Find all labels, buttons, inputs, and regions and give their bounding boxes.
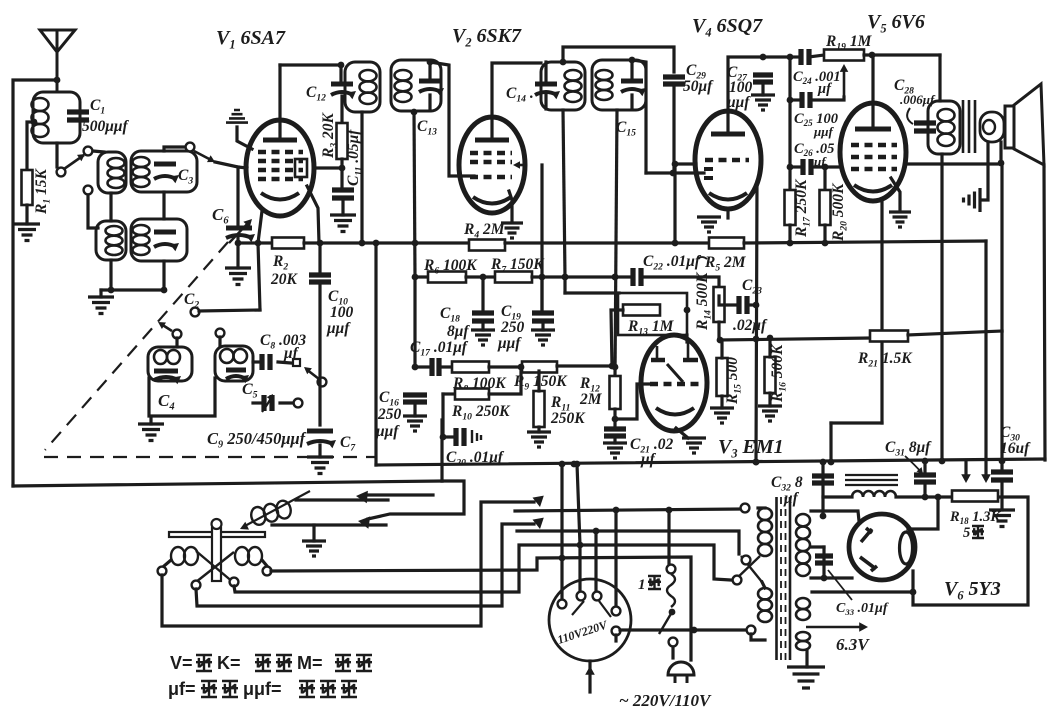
cjk glyph: [299, 681, 315, 697]
capacitor C10: [309, 275, 331, 282]
capacitor C9: [264, 395, 272, 411]
junction: [939, 458, 946, 465]
wire to C30: [1000, 331, 1003, 471]
wire C23 to rail: [747, 303, 756, 306]
ground below R11: [527, 432, 551, 447]
plug contact: [558, 600, 567, 609]
wire HV center tap: [811, 545, 824, 548]
grid row V5: [851, 155, 897, 160]
wire to C17: [415, 365, 429, 368]
osc coil terminal: [173, 330, 182, 339]
wire V1 plate to C12: [280, 63, 341, 66]
wire mains line A: [515, 509, 741, 511]
switch arm: [161, 324, 172, 331]
wire rail to R17: [788, 167, 791, 190]
wire C22 to R14: [641, 277, 719, 287]
wire V2 cathode to ground: [509, 191, 512, 222]
wire IF1 secondary return: [414, 111, 415, 277]
wire back bias line: [719, 338, 870, 340]
junction: [869, 52, 876, 59]
ground below R15: [710, 408, 734, 423]
wire contact to lower coil: [88, 195, 98, 228]
svg-text:M=: M=: [297, 653, 323, 673]
transformer terminal: [733, 576, 742, 585]
wire bus to C22: [532, 275, 631, 278]
grid row V2: [470, 151, 512, 156]
wire R10 to C20: [441, 394, 444, 437]
power transformer primary upper: [758, 508, 772, 520]
svg-text:μμf=: μμf=: [243, 679, 282, 699]
transformer terminal: [747, 626, 756, 635]
junction: [753, 459, 760, 466]
variable capacitor C6: [226, 226, 252, 231]
wire 6.3V winding to ground: [805, 650, 808, 667]
wire V4 plate to coupling: [728, 57, 763, 132]
antenna coil L1 loops: [32, 98, 49, 111]
grid row V5: [851, 167, 897, 172]
wire HV to V6 plate 2: [811, 576, 852, 579]
svg-text:20K: 20K: [270, 271, 299, 288]
capacitor C30: [991, 472, 1013, 480]
osc arm arrowhead: [158, 322, 166, 329]
junction: [753, 302, 760, 309]
wire bus tap to R18: [964, 462, 967, 478]
capacitor C26: [803, 159, 811, 175]
junction: [613, 507, 620, 514]
tube V6 5Y3: [849, 514, 915, 580]
grid row V4: [705, 158, 749, 163]
junction: [820, 459, 827, 466]
wire AVC bus: [505, 241, 709, 244]
junction: [787, 54, 794, 61]
svg-text:μf: μf: [640, 451, 657, 468]
wire R19 to output transformer: [864, 53, 940, 56]
C33 leader: [828, 570, 852, 600]
wire C25 to R19 wiper: [810, 97, 844, 100]
grid box V1: [295, 159, 307, 177]
ground below C7: [307, 457, 333, 474]
wire speaker to grid return: [999, 142, 1002, 163]
wire C33 chain: [822, 547, 825, 578]
ground below R2 wire: [225, 268, 251, 285]
grid row V1: [258, 150, 303, 155]
tube V4 6SQ7: [695, 111, 761, 209]
svg-text:V4 6SQ7: V4 6SQ7: [692, 15, 763, 39]
svg-text:R4 2M: R4 2M: [463, 221, 506, 240]
wire choke to R18: [896, 495, 952, 498]
junction: [612, 416, 619, 423]
wire C13 to box: [428, 95, 431, 110]
cjk glyph: [335, 655, 351, 671]
wire main bottom bus: [376, 459, 1045, 465]
wire 5V winding to V6: [812, 590, 913, 593]
wire rail to C26: [788, 100, 791, 167]
wire coil to ground bus: [162, 261, 165, 290]
junction: [577, 542, 584, 549]
wire C24 to R19: [809, 55, 824, 57]
junction: [691, 627, 698, 634]
wire V1 bottom to R2 node: [258, 211, 262, 243]
wire to R13 loop: [565, 291, 619, 294]
wire R12 to C21: [613, 409, 616, 427]
wire R1 to ground: [25, 205, 28, 224]
junction: [562, 274, 569, 281]
power transformer HV secondary: [796, 514, 810, 526]
V6 plates: [860, 528, 877, 571]
junction: [559, 555, 566, 562]
junction: [235, 240, 242, 247]
tube V5 6V6: [840, 103, 906, 201]
svg-text:R3 20K: R3 20K: [320, 111, 339, 159]
wire to C24: [763, 55, 790, 58]
svg-text:R16 500K: R16 500K: [769, 343, 788, 403]
6.3V arrowhead: [859, 622, 868, 632]
wire to plug pin: [594, 531, 597, 591]
ground below R16: [758, 406, 782, 421]
ground below C19: [531, 330, 555, 345]
wire coil to terminal: [262, 560, 267, 566]
ground below osc coil A: [138, 424, 164, 441]
label leader squiggle: [697, 257, 707, 259]
AVC arrow into V2: [516, 164, 526, 167]
ground at band switch: [302, 541, 326, 556]
plug pin: [612, 627, 621, 636]
svg-text:V2 6SK7: V2 6SK7: [452, 25, 522, 49]
wire to ground stub: [236, 243, 239, 268]
svg-text:16uf: 16uf: [1000, 440, 1031, 457]
junction: [560, 59, 567, 66]
resistor R13: [623, 305, 660, 316]
junction: [339, 165, 346, 172]
svg-text:R6 100K: R6 100K: [423, 257, 478, 276]
gang terminal: [158, 567, 167, 576]
capacitor C1: [67, 112, 89, 120]
grid row V1: [258, 177, 303, 182]
variable capacitor C15: [621, 79, 643, 84]
junction: [411, 109, 418, 116]
wire rail to R13 wire: [563, 277, 566, 293]
wire to C25: [790, 98, 800, 101]
ground below RF coils: [88, 297, 114, 314]
capacitor C16: [403, 395, 427, 402]
wire tickler to switch: [296, 498, 388, 501]
transformer terminal: [741, 504, 750, 513]
svg-text:C17 .01μf: C17 .01μf: [410, 339, 469, 358]
wire IF2 top to C29: [563, 47, 674, 72]
junction: [684, 307, 691, 314]
svg-text:100: 100: [330, 304, 354, 321]
wire to C14: [544, 62, 547, 82]
svg-text:V=: V=: [170, 653, 193, 673]
wire diode line: [646, 171, 704, 174]
grid row V1: [258, 159, 303, 164]
power transformer 6.3V winding: [796, 632, 810, 641]
oscillator coil box A: [148, 347, 192, 381]
dashed boundary bottom: [44, 456, 376, 458]
plug slots: [572, 601, 611, 617]
svg-text:R15 500: R15 500: [724, 357, 743, 405]
output transformer core: [963, 100, 975, 153]
C9 arrowhead: [267, 394, 273, 401]
wire V5 grid return: [906, 164, 1002, 331]
wire B+ AVC bus: [376, 241, 469, 244]
wire to R20: [823, 167, 826, 190]
cathode V1: [261, 193, 299, 200]
junction: [54, 77, 61, 84]
grid row V2: [470, 175, 512, 180]
wire C9 to contact: [280, 401, 293, 404]
output transformer primary box: [928, 101, 960, 154]
grid row EM1: [650, 382, 700, 387]
wire R14 to C23: [719, 296, 735, 305]
wire C11 to ground: [341, 201, 344, 215]
capacitor C17: [432, 358, 439, 376]
wire R9 to R11: [537, 371, 540, 391]
plate V4: [711, 132, 745, 137]
svg-text:R14 500K: R14 500K: [694, 271, 713, 331]
junction: [427, 59, 434, 66]
svg-text:R5 2M: R5 2M: [704, 254, 747, 273]
wire rail to C25: [788, 57, 791, 100]
junction: [767, 335, 774, 342]
C28 leader arrow: [907, 108, 913, 124]
resistor R16: [765, 357, 776, 393]
AVC arrowhead: [513, 161, 520, 169]
IF2 primary box: [541, 62, 585, 110]
junction: [669, 609, 676, 616]
osc switch contact: [191, 308, 200, 317]
variable capacitor C2: [154, 230, 176, 235]
antenna: [40, 30, 75, 93]
resistor R19 potentiometer: [824, 50, 864, 61]
wire C27 to ground: [761, 85, 764, 95]
wire V6 output: [908, 497, 938, 529]
resistor R5: [709, 238, 744, 249]
wire contact to coil: [93, 151, 104, 152]
junction: [760, 54, 767, 61]
wire osc ground line: [272, 523, 386, 526]
junction: [612, 274, 619, 281]
wire V1 to R3 junction: [314, 166, 342, 169]
grid row V2: [470, 160, 512, 165]
capacitor C32: [812, 476, 834, 483]
capacitor C21: [604, 429, 626, 436]
wire cathode to R21 loop: [880, 201, 883, 423]
wire left rail bottom bus: [13, 481, 442, 486]
RF coil loops lower-right: [133, 225, 150, 235]
C31 leader arrowhead: [917, 467, 924, 474]
wire C17 to R8: [439, 365, 452, 368]
junction: [612, 274, 619, 281]
capacitor C28: [914, 123, 936, 131]
resistor R21: [870, 331, 908, 342]
6.3V arrow line: [806, 626, 862, 629]
junction: [571, 461, 578, 468]
wire C15 to box: [630, 95, 633, 109]
osc coil terminal B: [216, 329, 225, 338]
junction: [922, 494, 929, 501]
power transformer primary lower: [758, 588, 772, 599]
wire R21 to grid return: [908, 331, 1002, 335]
wire R2 to IF rail: [304, 241, 376, 244]
plug stem arrowhead: [585, 666, 595, 675]
svg-text:V1 6SA7: V1 6SA7: [216, 27, 286, 51]
plug pin: [577, 592, 586, 601]
arrowhead onto R18: [961, 474, 971, 483]
wire V2 grid AVC rail: [540, 165, 543, 312]
capacitor C24: [801, 49, 809, 65]
RF coil box lower-right: [131, 219, 187, 261]
wire R11 to ground: [537, 427, 540, 432]
resistor R15: [717, 358, 728, 396]
cjk glyph: [341, 681, 357, 697]
arrowhead onto R18: [981, 474, 991, 483]
svg-text:μf=: μf=: [168, 679, 196, 699]
capacitor C18: [472, 313, 494, 321]
tube V2 6SK7: [459, 117, 525, 213]
resistor R1: [22, 170, 33, 205]
mains voltage selector plug: [549, 579, 631, 661]
wire speaker field to bus: [1044, 165, 1045, 460]
junction: [753, 459, 760, 466]
resistor R11: [534, 391, 545, 427]
switch contact: [57, 168, 66, 177]
resistor R17: [785, 190, 796, 225]
C6 trimmer arrow line: [229, 221, 250, 243]
junction: [935, 494, 942, 501]
wire bias line to R15: [720, 340, 723, 358]
cjk glyph: [255, 655, 271, 671]
junction: [666, 507, 673, 514]
filter choke: [852, 491, 896, 497]
cjk glyph: [320, 681, 336, 697]
tube V3 EM1: [641, 335, 707, 431]
wire C6 to R2: [238, 241, 272, 244]
junction: [317, 240, 324, 247]
wire bus: [466, 275, 495, 278]
wire R13 to detector node: [611, 310, 623, 366]
wire C18 to ground: [481, 324, 484, 330]
junction: [559, 461, 566, 468]
junction: [255, 240, 262, 247]
wire antenna to left rail: [13, 80, 57, 486]
junction: [753, 336, 760, 343]
ground at speaker: [964, 188, 981, 212]
IF2 primary loops: [565, 70, 582, 81]
junction: [593, 528, 600, 535]
resistor R14: [714, 287, 725, 322]
tuning gang shaft: [212, 528, 221, 581]
junction: [31, 119, 38, 126]
wire coil B to C9: [253, 401, 261, 404]
wire rail to C16: [413, 277, 416, 367]
wire plug stem: [588, 661, 591, 692]
wire EM1 cathode to ground: [676, 428, 688, 438]
ground below V2: [501, 223, 523, 238]
junction: [922, 458, 929, 465]
wire IF box left edge: [374, 243, 377, 465]
cjk glyph: [276, 655, 292, 671]
switch arm arrowhead: [77, 154, 85, 161]
IF1 secondary box: [391, 60, 441, 111]
junction: [999, 458, 1006, 465]
plate V2: [475, 138, 509, 143]
gang coil right: [235, 547, 249, 565]
wire osc switch contact: [199, 310, 260, 311]
filter choke core: [845, 475, 898, 485]
gang coil left: [171, 547, 185, 565]
svg-text:R17 250K: R17 250K: [793, 178, 812, 238]
wire R9 to detector node: [557, 364, 612, 367]
svg-text:R1 15K: R1 15K: [33, 167, 52, 215]
RF coil loops lower-left: [106, 226, 123, 236]
wire V4 grid to AVC bus: [675, 164, 696, 243]
resistor R2: [272, 238, 304, 249]
wire detector rail: [756, 182, 757, 462]
capacitor C8: [262, 354, 270, 370]
wire C8 to contact: [278, 362, 291, 363]
dashed boundary diagonal: [45, 242, 228, 450]
junction: [820, 513, 827, 520]
C31 leader: [905, 456, 921, 472]
junction: [539, 274, 546, 281]
ground below C11: [330, 215, 356, 232]
wire IF2 secondary to diode: [632, 60, 646, 173]
switch contact: [84, 147, 93, 156]
wire V2 plate to IF2: [492, 63, 541, 138]
wire divider feed: [984, 241, 987, 478]
svg-text:C24 .001: C24 .001: [793, 69, 841, 86]
junction: [609, 363, 616, 370]
variable capacitor C12: [331, 82, 353, 87]
wire C29 to diode line: [672, 87, 675, 173]
wire R21 loop bottom: [831, 421, 882, 424]
svg-text:250: 250: [377, 406, 402, 423]
antenna coil box L1: [33, 92, 80, 143]
wire speaker return: [981, 142, 988, 200]
svg-text:C31 8μf: C31 8μf: [885, 439, 932, 458]
osc switch contact: [294, 399, 303, 408]
svg-text:8μf: 8μf: [447, 323, 470, 340]
wire R10 to R9 junction: [489, 367, 521, 394]
svg-text:μμf: μμf: [326, 320, 351, 337]
gang cross brace: [196, 551, 234, 583]
wire bias line to R16: [768, 338, 771, 357]
wire pin stub: [614, 635, 617, 641]
wire W6: [162, 502, 534, 626]
wire R14 to bias line: [717, 322, 720, 337]
variable capacitor C4: [154, 369, 178, 374]
wire to R10: [443, 392, 455, 395]
V6 filament: [900, 532, 913, 564]
ground below C21: [603, 443, 627, 458]
osc arm 2 arrowhead: [304, 367, 312, 374]
wire OT primary return B+: [940, 154, 943, 462]
cathode EM1: [656, 408, 694, 415]
junction: [787, 240, 794, 247]
wire bus to output divider: [744, 241, 986, 243]
wire C19 to ground: [541, 324, 544, 330]
wire C32 rail: [821, 462, 824, 515]
wire V1 plate to IF1: [278, 65, 281, 138]
RF coil box upper-left: [98, 152, 126, 193]
wire coil to band switch: [55, 143, 58, 167]
switch arm: [306, 369, 319, 379]
wire coil tap to R1: [27, 122, 34, 170]
junction: [562, 274, 569, 281]
grid cap symbol V1: [226, 110, 248, 123]
capacitor C23: [739, 296, 747, 314]
